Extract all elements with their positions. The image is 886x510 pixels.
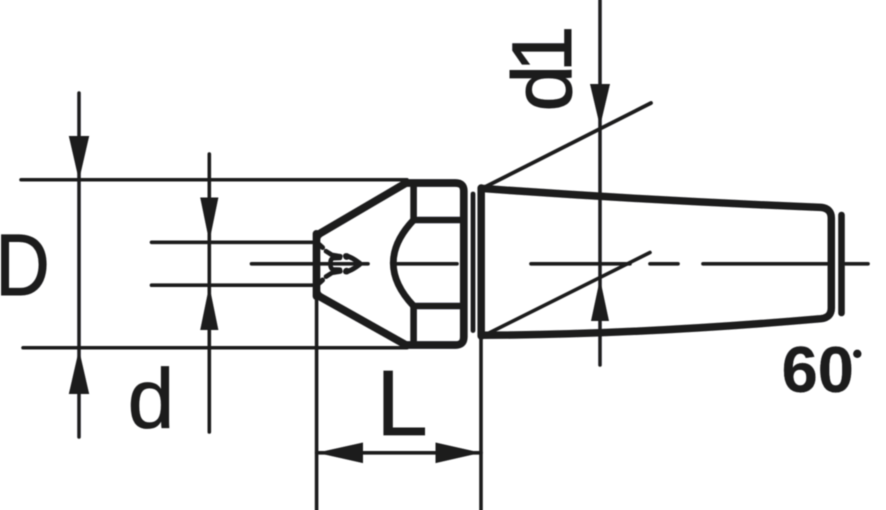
oblique extension line lower (d1) — [484, 253, 650, 336]
part: collar line — [471, 194, 476, 331]
arrowhead D top — [69, 136, 89, 181]
arrowhead L left — [317, 443, 363, 464]
centerline end stub — [845, 262, 868, 266]
extension line d lower — [152, 283, 314, 287]
center hole: middle bracket — [330, 258, 340, 270]
part: hex inner line top — [414, 217, 460, 224]
part: tip face bar — [313, 234, 321, 296]
center hole: upper cone flank — [346, 256, 360, 263]
svg-text:D: D — [0, 217, 50, 314]
part: hex inner vertical top — [410, 186, 417, 220]
arrowhead L right — [436, 443, 482, 464]
part: shank outline — [481, 188, 831, 335]
dimension line D — [77, 93, 81, 437]
arrowhead d1 top — [590, 84, 610, 127]
part: hex inner vertical bottom — [410, 306, 417, 341]
degree dot of 60deg — [853, 350, 861, 358]
svg-text:d: d — [128, 351, 175, 445]
arrowhead d top — [200, 198, 218, 242]
extension line top (D upper) — [21, 178, 407, 182]
part: shank left edge — [477, 188, 485, 336]
center hole: upper left stroke — [326, 251, 340, 256]
oblique extension line upper (d1) — [484, 103, 651, 188]
svg-text:L: L — [376, 351, 427, 455]
centerline dash 2 — [703, 262, 829, 266]
extension line L left — [315, 298, 319, 510]
dimension line d1 — [598, 0, 602, 365]
centerline segment left — [252, 262, 369, 266]
dimension line d — [208, 154, 212, 432]
center hole: face nub upper — [319, 245, 322, 248]
center hole: lower knob — [343, 268, 350, 275]
centerline short dash — [650, 262, 678, 266]
center hole: lower cone flank — [346, 264, 360, 272]
center hole: upper knob — [343, 253, 350, 260]
svg-text:60: 60 — [782, 333, 854, 406]
dimension line L — [317, 451, 481, 455]
center hole: lower left stroke — [326, 271, 340, 276]
part: shank end bar — [838, 215, 845, 313]
centerline segment through hex — [395, 262, 457, 266]
arrowhead d bottom — [200, 286, 218, 330]
extension line bottom (D lower) — [23, 346, 407, 350]
center hole: face nub lower — [319, 280, 322, 283]
svg-text:d1: d1 — [495, 29, 589, 111]
part: cone and hex outline — [317, 183, 464, 345]
part: hex inner line bottom — [414, 303, 460, 310]
extension line L right — [479, 339, 483, 510]
arrowhead d1 bottom — [591, 279, 609, 321]
extension line d upper — [152, 241, 314, 245]
centerline dash 1 — [531, 262, 630, 266]
arrowhead D bottom — [69, 350, 89, 395]
part: hex inner arc — [393, 220, 413, 306]
